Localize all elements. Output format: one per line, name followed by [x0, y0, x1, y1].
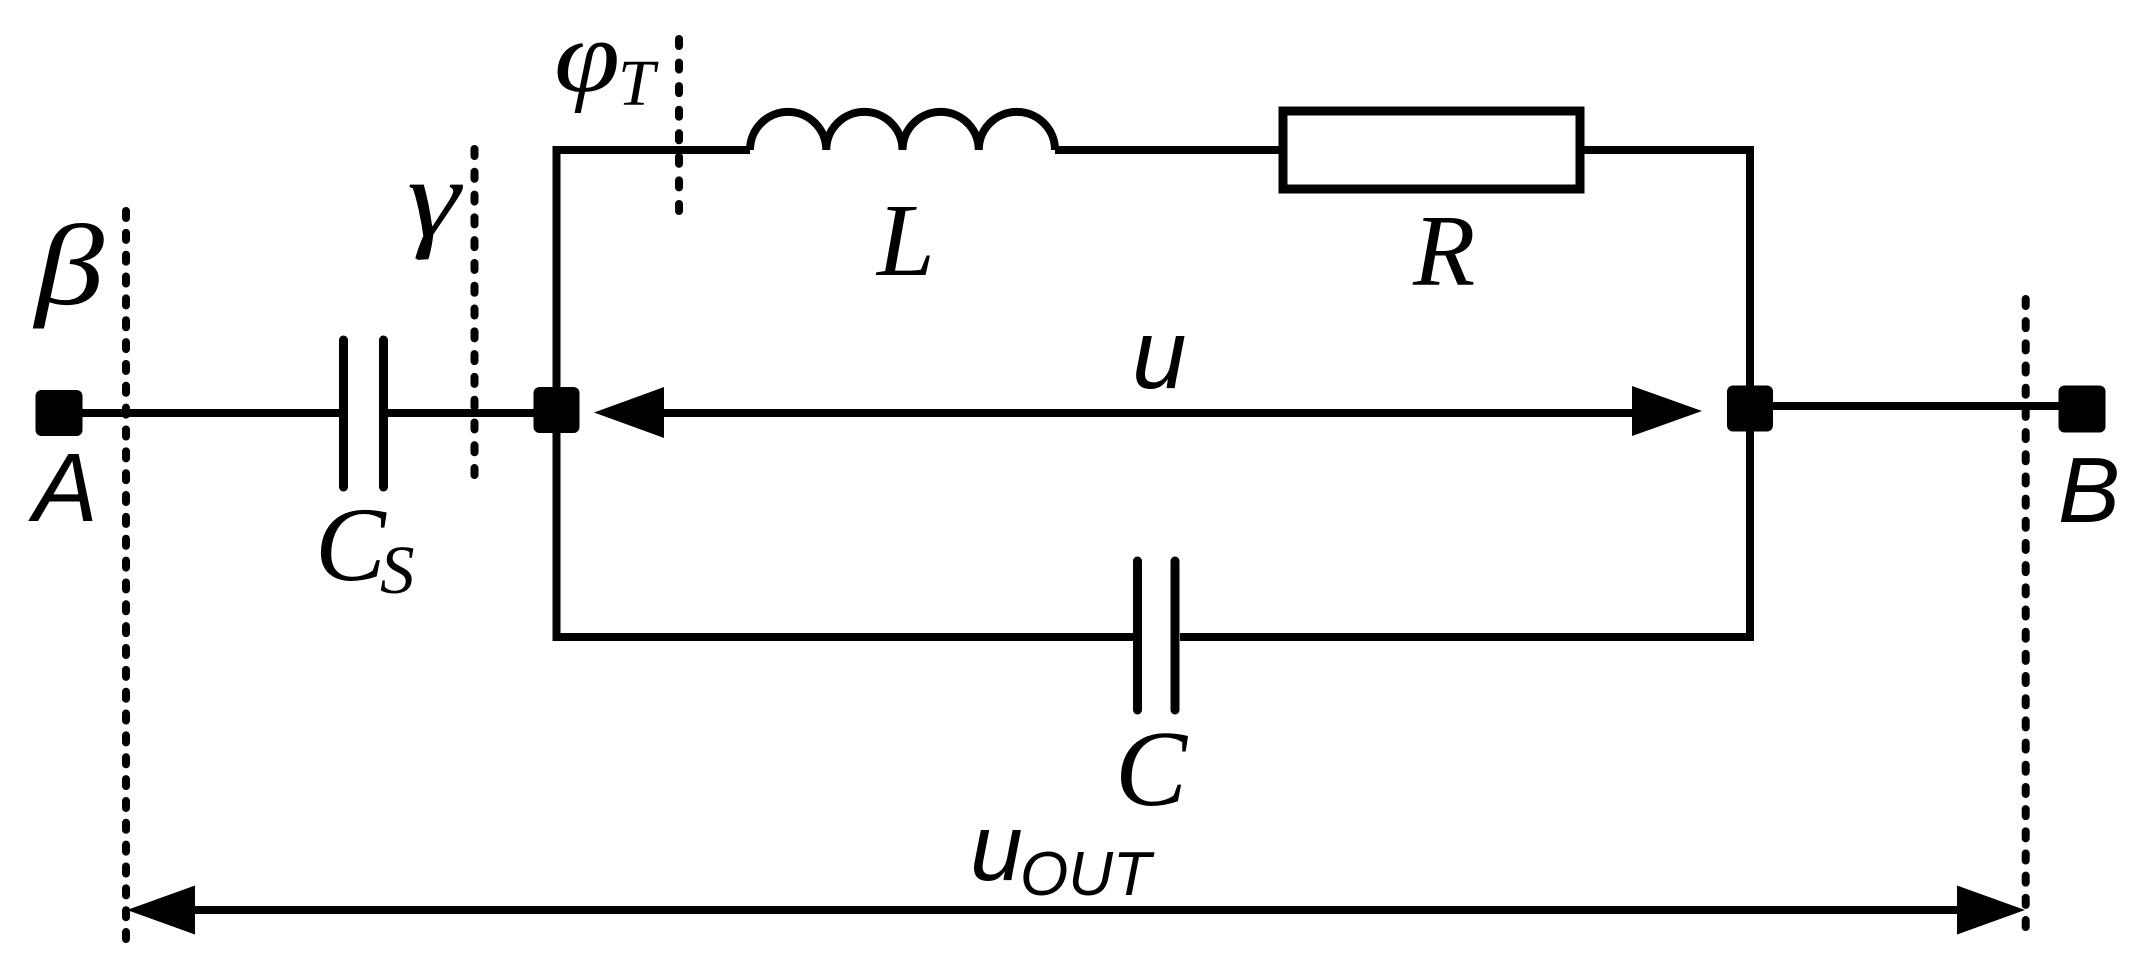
svg-text:T: T — [618, 47, 659, 120]
svg-text:u: u — [1132, 299, 1187, 409]
svg-text:S: S — [380, 532, 415, 608]
svg-text:OUT: OUT — [1020, 840, 1155, 909]
svg-text:C: C — [315, 486, 387, 603]
svg-text:C: C — [1115, 710, 1189, 829]
svg-text:R: R — [1412, 195, 1475, 308]
svg-text:A: A — [28, 433, 98, 542]
svg-text:L: L — [875, 183, 935, 298]
svg-text:β: β — [33, 202, 105, 329]
svg-text:γ: γ — [407, 137, 463, 261]
svg-text:φ: φ — [554, 0, 620, 114]
svg-text:u: u — [970, 795, 1023, 901]
svg-text:B: B — [2058, 438, 2120, 542]
